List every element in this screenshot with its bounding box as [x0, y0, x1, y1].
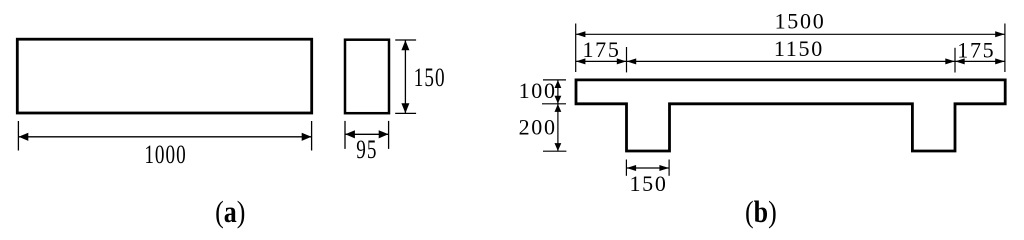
- svg-text:1150: 1150: [774, 36, 824, 61]
- arrowhead right of right 175: [995, 58, 1005, 64]
- tick at flange top (100 dim): [543, 79, 566, 81]
- tick at rib bottom (200 dim): [543, 150, 566, 152]
- extension line left outer (1500/175): [575, 24, 577, 73]
- label 95: [356, 135, 377, 165]
- extension tick top of 150 dimension: [395, 39, 416, 41]
- label 1500: [775, 9, 826, 34]
- svg-text:200: 200: [519, 114, 557, 139]
- beam elevation rectangle (1000 x 150): [17, 39, 311, 113]
- extension line left of 150 dim (b): [625, 160, 627, 176]
- arrowhead bottom of 150 dimension: [401, 103, 409, 113]
- extension line right of 150 dim (b): [668, 160, 670, 176]
- tick at flange bottom (100/200 dim): [542, 103, 566, 105]
- arrowhead right of 1500: [995, 31, 1005, 37]
- label 175 right: [957, 37, 995, 62]
- extension line right of 95 dimension: [388, 121, 390, 149]
- label 150 (b): [629, 171, 667, 196]
- svg-text:175: 175: [957, 37, 995, 62]
- dimension line 150 vertical: [404, 40, 406, 113]
- extension line right of 1000 dimension: [311, 121, 313, 151]
- cross-section rectangle (95 x 150): [345, 40, 389, 114]
- arrowhead left of 150 (b): [627, 165, 637, 171]
- extension line right outer (1500/175): [1004, 24, 1006, 73]
- label 1000: [144, 140, 186, 170]
- extension line left of 1000 dimension: [17, 121, 19, 151]
- svg-text:(a): (a): [215, 196, 245, 229]
- arrowhead right of 150 (b): [659, 165, 669, 171]
- arrowhead up of 200: [555, 104, 562, 112]
- arrowhead right of 1000 dimension: [302, 133, 312, 141]
- arrowhead top of 150 dimension: [401, 40, 409, 50]
- label 100: [519, 78, 557, 103]
- arrowhead right of 1150: [945, 58, 955, 64]
- svg-text:175: 175: [582, 37, 620, 62]
- arrowhead down of 100: [555, 96, 562, 104]
- arrowhead down of 200: [555, 143, 562, 151]
- label 150: [414, 63, 446, 93]
- caption (b): [745, 196, 777, 229]
- arrowhead left of 1500: [576, 31, 586, 37]
- extension line left rib (175/1150): [626, 47, 628, 72]
- svg-text:95: 95: [356, 135, 377, 165]
- caption (a): [215, 196, 245, 229]
- dimension line 100 vertical: [557, 80, 559, 104]
- label 175 left: [582, 37, 620, 62]
- label 200: [519, 114, 557, 139]
- arrowhead right of left 175: [617, 58, 627, 64]
- arrowhead left of 1000 dimension: [19, 133, 29, 141]
- label 1150: [774, 36, 824, 61]
- svg-text:1000: 1000: [144, 140, 186, 170]
- svg-text:1500: 1500: [775, 9, 826, 34]
- extension tick bottom of 150 dimension: [395, 112, 416, 114]
- arrowhead left of 1150: [627, 58, 637, 64]
- svg-text:100: 100: [519, 78, 557, 103]
- svg-text:150: 150: [629, 171, 667, 196]
- svg-text:150: 150: [414, 63, 446, 93]
- dimension line 95: [345, 133, 389, 135]
- extension line right rib (1150/175): [954, 48, 956, 73]
- arrowhead left of left 175: [576, 58, 586, 64]
- extension line left of 95 dimension: [344, 121, 346, 149]
- dimension line 175/1150/175: [576, 60, 1005, 62]
- arrowhead left of 95 dimension: [345, 130, 355, 138]
- dimension line 1500: [576, 33, 1005, 35]
- arrowhead up of 100: [555, 80, 562, 88]
- svg-text:(b): (b): [745, 196, 777, 229]
- dimension line 150 (b): [626, 167, 669, 169]
- double-T outline: [576, 80, 1005, 151]
- arrowhead right of 95 dimension: [379, 130, 389, 138]
- dimension line 200 vertical: [557, 104, 559, 151]
- arrowhead left of right 175: [955, 58, 965, 64]
- dimension line 1000: [18, 136, 311, 138]
